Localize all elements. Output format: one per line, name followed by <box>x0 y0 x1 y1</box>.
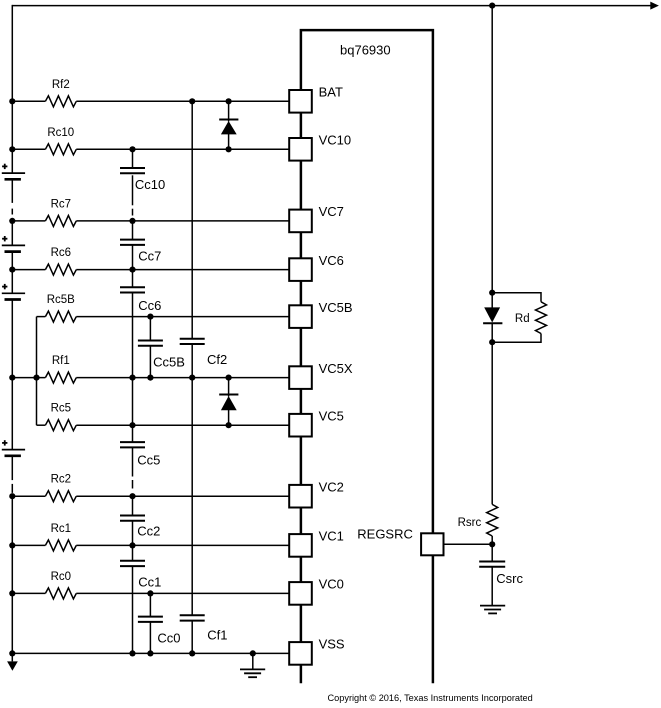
svg-text:Rc0: Rc0 <box>51 571 71 583</box>
wire Cc0 column top <box>149 593 151 616</box>
junction colB y653 <box>147 650 153 656</box>
wire left rail top <box>11 5 13 173</box>
resistor Rsrc <box>487 504 498 536</box>
resistor Rc0 <box>12 592 45 594</box>
pin VC7 <box>289 210 312 233</box>
wire Cc10 column top <box>132 149 134 168</box>
pin BAT <box>289 90 312 113</box>
pin VC5B <box>289 305 312 328</box>
battery cell CELL7 <box>2 238 7 240</box>
op-amp U1 bq76930 IC outline <box>301 30 433 683</box>
arrow pack+ right <box>650 2 659 10</box>
ground Csrc <box>480 605 505 607</box>
pin VC6 <box>289 258 312 281</box>
svg-text:bq76930: bq76930 <box>340 43 391 58</box>
wire Cc1 column bottom <box>132 566 134 653</box>
svg-text:Cc6: Cc6 <box>138 298 161 313</box>
svg-text:Copyright © 2016, Texas Instru: Copyright © 2016, Texas Instruments Inco… <box>328 693 533 703</box>
junction colF y377 <box>189 375 195 381</box>
pin VC5 <box>289 414 312 437</box>
wire left rail below cell7 <box>11 251 13 270</box>
wire stub rail <box>36 317 38 426</box>
wire Cf1 column bottom <box>191 621 193 654</box>
battery cell CELL10 <box>2 165 7 167</box>
wire Cc5 column bottom <box>132 447 134 476</box>
junction colA y220 <box>129 218 135 224</box>
wire top rail BAT to pack+ <box>12 5 650 7</box>
svg-text:Rd: Rd <box>515 313 530 325</box>
wire dashed omitted cells left lower <box>11 484 13 493</box>
pin VC10 <box>289 138 312 161</box>
wire right rail top <box>491 6 493 293</box>
resistor Rd <box>492 293 541 302</box>
svg-text:Rc7: Rc7 <box>51 198 71 210</box>
junction colB y593 <box>147 590 153 596</box>
junction colD y377 <box>226 375 232 381</box>
svg-text:Cc5B: Cc5B <box>153 355 185 370</box>
capacitor Cc2 <box>120 515 145 517</box>
wire dashed omitted cells left <box>11 209 13 215</box>
capacitor Cc5B <box>138 340 163 342</box>
capacitor Cf1 <box>180 614 205 616</box>
junction rail y101 <box>9 98 15 104</box>
wire VSS row <box>12 652 288 654</box>
junction colA y269 <box>129 267 135 273</box>
resistor Rc5 <box>37 424 46 426</box>
svg-text:Rf2: Rf2 <box>52 79 70 91</box>
wire left rail below cell2 <box>11 456 13 481</box>
junction colF y653 <box>189 650 195 656</box>
svg-text:Cc1: Cc1 <box>138 575 161 590</box>
capacitor Cc6 <box>120 286 145 288</box>
svg-text:Rc2: Rc2 <box>51 474 71 486</box>
junction rail y496 <box>9 493 15 499</box>
wire Cc5B column bottom <box>149 346 151 378</box>
junction gnd y653 <box>250 650 256 656</box>
wire node to Csrc <box>491 544 493 561</box>
svg-text:VC6: VC6 <box>319 253 344 268</box>
svg-text:Cc2: Cc2 <box>137 524 160 539</box>
junction colD y425 <box>226 422 232 428</box>
wire left rail VC2 to VSS <box>11 496 13 661</box>
junction colD y149 <box>226 146 232 152</box>
resistor Rc5B <box>37 316 46 318</box>
junction rail y653 <box>9 650 15 656</box>
pin REGSRC <box>421 533 443 555</box>
junction rail y593 <box>9 590 15 596</box>
svg-text:Csrc: Csrc <box>496 571 523 586</box>
wire Cc2 column bottom <box>132 521 134 546</box>
capacitor Cf2 <box>180 338 205 340</box>
svg-text:Rc1: Rc1 <box>51 523 71 535</box>
battery cell CELL6 <box>2 286 7 288</box>
wire Cc5 column top <box>132 378 134 443</box>
pin VC2 <box>289 485 312 508</box>
pin VC5X <box>289 366 312 389</box>
resistor Rc7 <box>12 220 45 222</box>
node Rd top <box>489 290 495 296</box>
wire Cc6 column top <box>132 270 134 288</box>
svg-text:Rc6: Rc6 <box>51 247 71 259</box>
junction colA y653 <box>129 650 135 656</box>
junction rail y269 <box>9 267 15 273</box>
svg-text:VC0: VC0 <box>319 577 344 592</box>
svg-text:VC5B: VC5B <box>319 300 353 315</box>
node Rd bottom <box>489 339 495 345</box>
svg-text:Rc5B: Rc5B <box>47 294 75 306</box>
wire left rail VC5X row down <box>11 378 13 450</box>
wire Cf2 column top <box>191 101 193 338</box>
svg-text:VC10: VC10 <box>319 133 352 148</box>
capacitor Csrc <box>479 561 505 563</box>
resistor Rc6 <box>12 269 45 271</box>
diode D1 <box>228 101 230 121</box>
resistor Rc1 <box>12 544 45 546</box>
capacitor Cc5 <box>120 441 145 443</box>
wire dashed omitted Cc column lower <box>132 480 134 489</box>
junction colF y101 <box>189 98 195 104</box>
wire dashed omitted Cc column <box>132 209 134 216</box>
resistor Rf2 <box>12 100 45 102</box>
svg-text:Rsrc: Rsrc <box>458 517 482 529</box>
diode Dd <box>491 293 493 308</box>
wire left rail below cell10 <box>11 179 13 203</box>
svg-text:VSS: VSS <box>319 637 345 652</box>
wire Cc2 column top <box>132 496 134 515</box>
resistor Rc2 <box>12 495 45 497</box>
capacitor Cc10 <box>120 167 145 169</box>
svg-text:Cc0: Cc0 <box>157 631 180 646</box>
wire VSS ground stub <box>252 653 254 669</box>
pin VSS <box>289 642 312 665</box>
arrow pack- down <box>7 661 18 670</box>
pin VC1 <box>289 534 312 557</box>
wire Cc0 column bottom <box>149 622 151 654</box>
svg-text:Cc5: Cc5 <box>137 453 160 468</box>
node top junction <box>489 3 495 9</box>
ground VSS <box>240 668 265 670</box>
svg-text:VC5X: VC5X <box>319 361 353 376</box>
resistor Rc10 <box>12 148 45 150</box>
wire Cf column middle <box>191 344 193 615</box>
wire Cc7 column bottom <box>132 245 134 270</box>
junction colA y545 <box>129 542 135 548</box>
svg-text:Cf1: Cf1 <box>207 628 227 643</box>
svg-text:BAT: BAT <box>319 85 343 100</box>
junction colA y425 <box>129 422 135 428</box>
capacitor Cc7 <box>120 239 145 241</box>
wire Cc7 column top <box>132 221 134 240</box>
svg-text:VC1: VC1 <box>319 529 344 544</box>
wire left rail VC7-VC6 <box>11 221 13 246</box>
svg-text:Cf2: Cf2 <box>207 352 227 367</box>
wire Rd to Rsrc <box>491 342 493 504</box>
node REGSRC junction <box>489 541 495 547</box>
pin VC0 <box>289 582 312 605</box>
wire Cc6 column bottom <box>132 293 134 378</box>
svg-text:VC7: VC7 <box>319 204 344 219</box>
junction colA y149 <box>129 146 135 152</box>
junction rail y377 <box>9 375 15 381</box>
capacitor Cc0 <box>138 616 163 618</box>
junction stub y377 <box>33 375 39 381</box>
svg-text:VC2: VC2 <box>319 479 344 494</box>
battery cell CELL2 <box>2 442 7 444</box>
junction colA y377 <box>129 375 135 381</box>
svg-text:Rf1: Rf1 <box>52 355 70 367</box>
junction rail y545 <box>9 542 15 548</box>
junction colA y496 <box>129 493 135 499</box>
svg-text:REGSRC: REGSRC <box>357 527 413 542</box>
diode D2 <box>228 378 230 397</box>
wire left rail cell6 to VC5X row <box>11 299 13 377</box>
wire REGSRC to node <box>445 543 493 545</box>
junction rail y149 <box>9 146 15 152</box>
wire Cc5B column top <box>149 317 151 341</box>
wire Cc1 column top <box>132 545 134 560</box>
svg-text:Cc7: Cc7 <box>138 248 161 263</box>
svg-text:VC5: VC5 <box>319 408 344 423</box>
junction rail y220 <box>9 218 15 224</box>
capacitor Cc1 <box>120 560 145 562</box>
junction colB y316 <box>147 314 153 320</box>
svg-text:Rc10: Rc10 <box>47 127 74 139</box>
wire Cc10 column bottom <box>132 175 134 205</box>
wire left rail VC6 down <box>11 270 13 294</box>
svg-text:Rc5: Rc5 <box>51 403 71 415</box>
wire Csrc to ground <box>491 567 493 606</box>
resistor Rf1 <box>12 377 45 379</box>
junction colD y101 <box>226 98 232 104</box>
svg-text:Cc10: Cc10 <box>135 177 165 192</box>
junction colB y377 <box>147 375 153 381</box>
